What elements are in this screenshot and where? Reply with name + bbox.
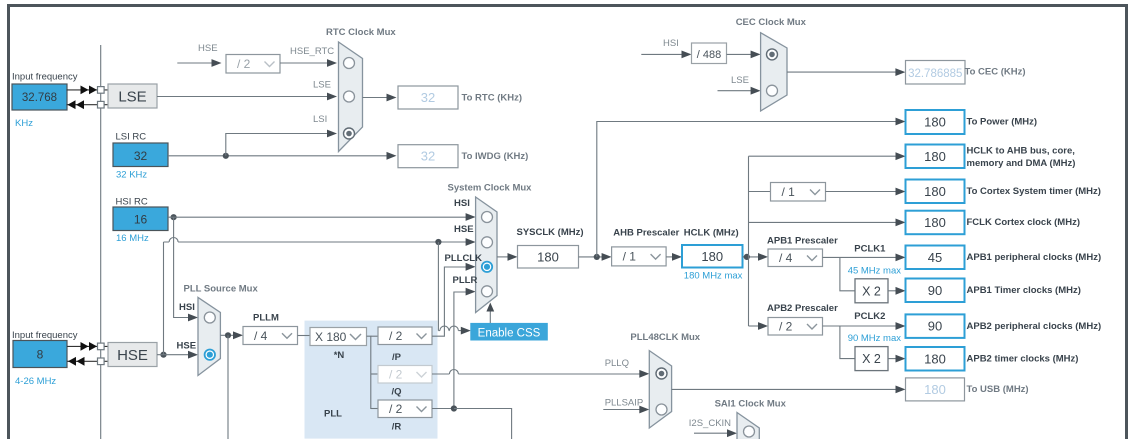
arrowhead into PLLM xyxy=(233,331,243,339)
wire to FCLK box xyxy=(749,221,896,223)
svg-text:32.768: 32.768 xyxy=(22,92,57,104)
HSE input frequency source box 8 xyxy=(13,341,67,368)
svg-text:LSE: LSE xyxy=(731,75,749,86)
wire APB2 branch to X2 xyxy=(840,326,855,359)
svg-text:/P: /P xyxy=(392,352,402,363)
svg-text:memory and DMA (MHz): memory and DMA (MHz) xyxy=(967,158,1076,169)
svg-text:180: 180 xyxy=(537,249,559,264)
svg-text:HSI: HSI xyxy=(179,302,195,313)
pin square LSE out xyxy=(98,101,105,108)
arrowhead into APB1 peripheral box xyxy=(896,254,906,262)
radio HSE (system mux) xyxy=(482,237,493,248)
svg-text:PLL48CLK Mux: PLL48CLK Mux xyxy=(630,332,700,343)
svg-text:/ 1: / 1 xyxy=(782,185,796,199)
wire AHB prescaler to HCLK box xyxy=(666,256,672,258)
FCLK value box 180 xyxy=(906,211,965,235)
wire to /R xyxy=(371,408,378,410)
pin square HSE out xyxy=(98,358,105,365)
svg-text:/ 4: / 4 xyxy=(779,251,793,265)
To Cortex timer value box 180 xyxy=(906,180,965,204)
svg-text:180: 180 xyxy=(924,351,946,366)
svg-text:HSE_RTC: HSE_RTC xyxy=(290,46,334,57)
svg-text:To CEC (KHz): To CEC (KHz) xyxy=(965,67,1026,78)
HCLK value box 180 xyxy=(682,245,743,268)
wire /488 to CEC mux xyxy=(727,53,752,55)
wire HSE into system mux xyxy=(438,241,466,243)
LSE oscillator box xyxy=(108,84,157,108)
double arrow right into HSE pin xyxy=(81,342,98,351)
arrowhead HSI into CEC mux xyxy=(751,51,761,59)
arrowhead into FCLK box xyxy=(896,219,906,227)
PLL Source Mux body xyxy=(198,297,220,375)
junction HSE to CSS xyxy=(435,239,441,245)
svg-text:/ 2: / 2 xyxy=(389,368,403,382)
svg-text:To USB (MHz): To USB (MHz) xyxy=(967,384,1029,395)
arrowhead I2S_CKIN into SAI1 mux xyxy=(727,429,737,437)
svg-text:Input frequency: Input frequency xyxy=(12,72,78,83)
HSI RC source box 16 xyxy=(113,207,168,231)
APB1 timer value box 90 xyxy=(906,279,965,303)
svg-text:SAI1 Clock Mux: SAI1 Clock Mux xyxy=(715,398,787,409)
arrowhead into HCLK box xyxy=(672,253,682,261)
divider box / 488 xyxy=(692,43,727,64)
svg-text:32: 32 xyxy=(421,149,435,164)
svg-text:4-26 MHz: 4-26 MHz xyxy=(15,376,56,387)
wire CSS horizontal (hops PLLCLK and PLLR) xyxy=(438,326,461,331)
wire SYSCLK up to To Power xyxy=(597,122,896,257)
double arrow left out of LSE pin xyxy=(68,100,85,109)
APB2 peripheral value box 90 xyxy=(906,314,965,338)
arrowhead PLLR into system mux xyxy=(466,288,476,296)
svg-text:45: 45 xyxy=(928,250,942,265)
svg-text:PLLM: PLLM xyxy=(253,313,279,324)
arrowhead into /2 divider xyxy=(212,59,222,67)
RTC Clock Mux body xyxy=(339,42,363,152)
wire X2 to APB2 timer box xyxy=(888,358,897,360)
svg-text:Input frequency: Input frequency xyxy=(12,330,78,341)
combo PLL /R divider / 2 xyxy=(378,400,432,418)
arrowhead LSE into CEC mux xyxy=(751,87,761,95)
svg-text:X 180: X 180 xyxy=(315,330,347,344)
pin square LSE in xyxy=(98,87,105,94)
SYSCLK value box 180 xyxy=(518,246,579,269)
radio HSI selected (CEC mux) xyxy=(767,49,778,60)
svg-text:PLLSAIP: PLLSAIP xyxy=(605,398,644,409)
wire I2S_CKIN to SAI1 mux xyxy=(694,432,728,434)
arrowhead into /488 xyxy=(682,51,692,59)
wire PLLM to *N xyxy=(298,335,311,337)
svg-text:16: 16 xyxy=(134,213,148,227)
svg-text:APB2 timer clocks (MHz): APB2 timer clocks (MHz) xyxy=(967,354,1079,365)
svg-text:LSE: LSE xyxy=(118,89,146,106)
wire HSE box to pin (top) xyxy=(67,345,108,347)
wire HSI down to PLL source mux xyxy=(174,217,189,317)
svg-text:PLLCLK: PLLCLK xyxy=(445,253,483,264)
wire system mux to SYSCLK box xyxy=(497,256,508,258)
svg-text:HSE: HSE xyxy=(454,224,474,235)
arrowhead into APB1 timer box xyxy=(896,287,906,295)
svg-text:90: 90 xyxy=(928,319,942,334)
svg-text:*N: *N xyxy=(334,350,345,361)
System Clock Mux body xyxy=(476,197,497,313)
wire to APB2 prescaler xyxy=(749,325,761,327)
double arrow left out of HSE pin xyxy=(68,357,85,366)
svg-text:32: 32 xyxy=(421,90,435,105)
wire HSE to system clock mux (hops HSI) xyxy=(164,238,439,243)
arrowhead into To IWDG box xyxy=(387,152,397,160)
svg-text:/ 2: / 2 xyxy=(389,329,403,343)
svg-text:/R: /R xyxy=(392,422,402,433)
arrowhead into To Power box xyxy=(896,118,906,126)
wire X2 to APB1 timer box xyxy=(888,290,897,292)
svg-text:/ 4: / 4 xyxy=(254,329,268,343)
PLL48CLK Mux body xyxy=(649,351,671,428)
wire PLL source down to PLLI2S xyxy=(227,335,229,439)
junction HSE output xyxy=(160,352,166,358)
svg-text:X 2: X 2 xyxy=(862,284,881,298)
wire HSE pin to box (bottom) xyxy=(67,360,108,362)
radio PLLR (system mux) xyxy=(482,286,493,297)
svg-text:To IWDG (KHz): To IWDG (KHz) xyxy=(462,151,529,162)
wire Enable CSS to mux xyxy=(489,310,491,324)
svg-text:45 MHz max: 45 MHz max xyxy=(848,266,902,277)
arrowhead into Cortex timer box xyxy=(896,188,906,196)
svg-text:32.786885: 32.786885 xyxy=(908,68,962,80)
wire to Cortex /1 divider xyxy=(749,191,771,193)
svg-text:16 MHz: 16 MHz xyxy=(116,233,149,244)
radio HSI (system mux) xyxy=(482,212,493,223)
svg-text:FCLK Cortex clock (MHz): FCLK Cortex clock (MHz) xyxy=(967,217,1080,228)
To CEC value box 32.786885 xyxy=(906,61,966,85)
radio PLLCLK selected (system mux) xyxy=(482,262,492,272)
svg-text:RTC Clock Mux: RTC Clock Mux xyxy=(326,27,396,38)
Enable CSS button xyxy=(470,323,548,341)
svg-text:AHB Prescaler: AHB Prescaler xyxy=(613,228,679,239)
wire PLLR down to I2S mux xyxy=(454,409,512,439)
svg-text:180: 180 xyxy=(924,184,946,199)
combo PLLM / 4 xyxy=(243,327,298,345)
wire PLLSAIP to PLL48 mux xyxy=(603,409,640,411)
arrowhead PLLSAIP into PLL48 mux xyxy=(639,406,649,414)
combo PLL /Q divider / 2 (disabled) xyxy=(378,366,432,384)
svg-text:LSI: LSI xyxy=(313,114,327,125)
arrowhead into APB2 peripheral box xyxy=(896,322,906,330)
svg-text:32 KHz: 32 KHz xyxy=(116,170,147,181)
radio LSE (RTC mux) xyxy=(344,91,355,102)
svg-text:PCLK1: PCLK1 xyxy=(854,244,886,255)
wire LSE to RTC mux xyxy=(157,96,328,98)
wire HSE to RTC divider xyxy=(177,62,213,64)
svg-text:HSE: HSE xyxy=(177,341,197,352)
X 2 multiplier box (APB2) xyxy=(855,347,888,371)
wire LSI branch up to RTC mux xyxy=(226,134,328,156)
To Power value box 180 xyxy=(906,110,965,134)
arrowhead HSI into PLL source mux xyxy=(188,314,198,322)
junction HCLK output xyxy=(744,254,750,260)
radio LSE (CEC mux) xyxy=(767,85,778,96)
wire HSE to PLL source mux xyxy=(157,354,189,356)
wire HCLK output xyxy=(743,256,761,258)
arrowhead into APB1 prescaler xyxy=(758,253,768,261)
svg-text:System Clock Mux: System Clock Mux xyxy=(448,183,533,194)
arrowhead into APB2 timer box xyxy=(896,355,906,363)
radio HSI (PLL source mux) xyxy=(204,312,215,323)
CEC Clock Mux body xyxy=(761,33,787,111)
junction SYSCLK output xyxy=(594,254,600,260)
svg-text:PCLK2: PCLK2 xyxy=(854,311,885,322)
radio HSE_RTC (RTC mux) xyxy=(344,58,355,69)
wire PLLR from /R to system mux xyxy=(432,292,467,409)
wire CEC mux output xyxy=(787,71,896,73)
wire /2 divider to RTC mux xyxy=(280,62,328,64)
PLL block background panel xyxy=(305,321,438,439)
arrowhead into Enable CSS xyxy=(461,327,471,335)
APB1 peripheral value box 45 xyxy=(906,246,965,270)
svg-text:PLL: PLL xyxy=(324,409,342,420)
wire HSI to /488 divider xyxy=(641,53,682,55)
svg-text:180: 180 xyxy=(924,215,946,230)
wire LSI RC output to IWDG xyxy=(168,155,387,157)
wire LSE to CEC mux xyxy=(718,90,752,92)
arrowhead LSE into RTC mux xyxy=(327,93,337,101)
HCLK to AHB value box 180 xyxy=(906,145,965,169)
APB2 timer value box 180 xyxy=(906,347,965,371)
combo APB2 prescaler / 2 xyxy=(768,318,823,336)
pin square HSE in xyxy=(98,343,105,350)
svg-text:APB1 peripheral clocks (MHz): APB1 peripheral clocks (MHz) xyxy=(967,252,1102,263)
arrowhead HSE_RTC into RTC mux xyxy=(327,59,337,67)
svg-text:LSI RC: LSI RC xyxy=(116,132,147,143)
svg-text:HSE: HSE xyxy=(117,347,148,364)
svg-text:APB1 Timer clocks (MHz): APB1 Timer clocks (MHz) xyxy=(967,285,1081,296)
arrowhead into To RTC box xyxy=(387,94,397,102)
svg-text:To RTC (KHz): To RTC (KHz) xyxy=(462,93,523,104)
radio I2S_CKIN (SAI1 mux) xyxy=(744,426,755,437)
wire PLLCLK from /P to system mux xyxy=(432,267,467,336)
arrowhead PLLQ into PLL48 mux xyxy=(639,370,649,378)
arrowhead HSI into system mux xyxy=(466,213,476,221)
wire to HCLK AHB bus box xyxy=(749,155,896,157)
wire LSE pin to box (bottom) xyxy=(67,104,109,106)
combo Cortex timer divider / 1 xyxy=(771,183,826,202)
HSE oscillator box xyxy=(108,343,157,367)
SAI1 Clock Mux body (partial) xyxy=(737,413,759,439)
svg-text:PLLQ: PLLQ xyxy=(605,358,629,369)
svg-text:PLLR: PLLR xyxy=(453,275,478,286)
svg-text:KHz: KHz xyxy=(15,118,33,129)
svg-text:Enable CSS: Enable CSS xyxy=(478,327,541,339)
svg-text:HSE: HSE xyxy=(198,43,218,54)
svg-text:8: 8 xyxy=(37,348,44,362)
svg-text:90 MHz max: 90 MHz max xyxy=(848,333,902,344)
svg-text:X 2: X 2 xyxy=(862,352,881,366)
combo PLL /P divider / 2 xyxy=(378,327,432,345)
svg-text:180: 180 xyxy=(924,149,946,164)
wire HSE riser xyxy=(163,242,165,355)
svg-text:I2S_CKIN: I2S_CKIN xyxy=(689,418,731,429)
LSE input frequency source box 32.768 xyxy=(12,84,67,110)
svg-text:HCLK (MHz): HCLK (MHz) xyxy=(684,228,739,239)
arrowhead PLLCLK into system mux xyxy=(466,263,476,271)
svg-text:/ 2: / 2 xyxy=(237,57,251,71)
svg-text:SYSCLK (MHz): SYSCLK (MHz) xyxy=(517,227,584,238)
wire HCLK distribution vertical xyxy=(748,156,750,326)
wire PLL48 mux output to USB xyxy=(672,388,896,390)
wire to /Q xyxy=(371,373,378,375)
wire *N distribution vertical xyxy=(367,336,374,408)
svg-text:APB2 peripheral clocks (MHz): APB2 peripheral clocks (MHz) xyxy=(967,321,1102,332)
svg-text:HSI RC: HSI RC xyxy=(116,197,148,208)
To IWDG value box 32 xyxy=(398,145,458,168)
arrowhead into To CEC box xyxy=(895,68,905,76)
combo PLL *N X 180 xyxy=(310,328,367,346)
radio HSE selected (PLL source mux) xyxy=(205,350,215,360)
wire PLLQ from /Q to PLL48 mux (hop PLLR) xyxy=(432,370,640,375)
wire PLL source mux output xyxy=(220,334,234,336)
svg-text:180: 180 xyxy=(924,382,946,397)
svg-text:180: 180 xyxy=(924,115,946,130)
arrowhead up into system mux xyxy=(486,303,494,312)
svg-text:LSE: LSE xyxy=(313,80,331,91)
svg-text:180 MHz max: 180 MHz max xyxy=(684,271,743,282)
svg-text:PLL Source Mux: PLL Source Mux xyxy=(184,284,259,295)
arrowhead into To USB box xyxy=(896,386,906,394)
junction PLLR output xyxy=(451,405,457,411)
wire Cortex divider to box xyxy=(826,191,896,193)
LSI RC source box 32 xyxy=(113,143,168,167)
radio LSI selected (RTC mux) xyxy=(344,128,355,139)
arrowhead HSE into PLL source mux xyxy=(188,351,198,359)
wire to /P xyxy=(371,335,378,337)
svg-text:/ 2: / 2 xyxy=(389,402,403,416)
wire LSE box to pin (top) xyxy=(67,89,109,91)
svg-text:HSI: HSI xyxy=(454,198,470,209)
wire RTC mux output xyxy=(363,97,387,99)
svg-text:CEC Clock Mux: CEC Clock Mux xyxy=(736,17,807,28)
svg-text:90: 90 xyxy=(928,283,942,298)
left device pin rail line xyxy=(100,45,102,439)
svg-text:HCLK to AHB bus, core,: HCLK to AHB bus, core, xyxy=(967,146,1075,157)
svg-text:180: 180 xyxy=(701,249,723,264)
arrowhead into APB2 prescaler xyxy=(758,322,768,330)
wire APB1 branch to X2 xyxy=(840,257,855,290)
wire CSS vertical from HSE xyxy=(437,242,439,331)
junction LSI output xyxy=(223,153,229,159)
wire PCLK2 to APB2 box xyxy=(823,325,898,327)
wire PCLK1 to APB1 box xyxy=(823,256,898,258)
arrowhead LSI into RTC mux xyxy=(327,130,337,138)
svg-text:HSI: HSI xyxy=(663,38,679,49)
junction HSI RC output xyxy=(171,214,177,220)
radio PLLQ selected (PLL48 mux) xyxy=(656,368,667,379)
arrowhead into SYSCLK box xyxy=(508,253,518,261)
svg-text:APB2 Prescaler: APB2 Prescaler xyxy=(767,303,838,314)
svg-text:/ 1: / 1 xyxy=(623,250,637,264)
arrowhead into AHB prescaler xyxy=(602,253,612,261)
combo APB1 prescaler / 4 xyxy=(768,249,823,267)
arrowhead into HCLK AHB box xyxy=(896,152,906,160)
arrowhead HSE into system mux xyxy=(466,238,476,246)
radio PLLSAIP (PLL48 mux) xyxy=(656,404,667,415)
svg-text:/ 2: / 2 xyxy=(779,320,793,334)
svg-text:32: 32 xyxy=(134,149,148,163)
combo AHB prescaler / 1 xyxy=(612,247,667,266)
wire SYSCLK to AHB prescaler xyxy=(579,256,603,258)
To RTC value box 32 xyxy=(398,86,458,109)
double arrow right into LSE pin xyxy=(81,86,98,95)
svg-text:/ 488: / 488 xyxy=(697,49,721,61)
svg-text:/Q: /Q xyxy=(391,387,401,398)
svg-text:APB1 Prescaler: APB1 Prescaler xyxy=(767,236,838,247)
junction PLLM input xyxy=(225,332,231,338)
svg-text:To Cortex System timer (MHz): To Cortex System timer (MHz) xyxy=(967,186,1101,197)
X 2 multiplier box (APB1) xyxy=(855,279,888,303)
svg-text:To Power (MHz): To Power (MHz) xyxy=(967,117,1038,128)
combo HSE RTC divider / 2 xyxy=(226,55,280,74)
To USB value box 180 xyxy=(906,378,965,401)
wire HSI to system clock mux xyxy=(168,216,467,218)
